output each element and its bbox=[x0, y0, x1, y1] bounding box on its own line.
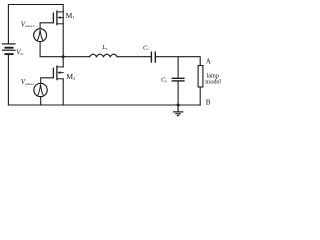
battery Vdc bbox=[3, 44, 16, 54]
wire Vpulse1 return to midpoint bbox=[40, 42, 63, 57]
wire Cs to lamp bbox=[156, 57, 200, 66]
transistor M1 bbox=[53, 11, 63, 25]
wire M2 source lead bbox=[62, 79, 64, 105]
svg-text:Cp: Cp bbox=[161, 76, 167, 83]
transistor M2 bbox=[53, 66, 63, 80]
svg-text:Le: Le bbox=[101, 44, 108, 51]
wire midpoint to inductor bbox=[63, 56, 89, 58]
inductor Le bbox=[90, 54, 118, 57]
node midpoint junction bbox=[62, 55, 65, 58]
capacitor Cp bbox=[172, 78, 184, 81]
svg-text:Cs: Cs bbox=[143, 44, 149, 51]
wire M1 gate lead bbox=[40, 23, 53, 29]
wire left rail down bbox=[7, 55, 9, 105]
wire Cp to ground rail bbox=[177, 82, 179, 106]
wire Vpulse2 return to ground rail bbox=[40, 97, 42, 105]
wire M2 drain lead bbox=[62, 57, 64, 67]
svg-text:M1: M1 bbox=[66, 11, 75, 20]
svg-text:Vdc: Vdc bbox=[16, 48, 24, 56]
wire M1 drain-source lead bbox=[62, 12, 64, 57]
svg-text:Vpulse2: Vpulse2 bbox=[21, 78, 34, 86]
ground bbox=[174, 105, 183, 116]
wire M2 gate lead bbox=[41, 78, 54, 84]
svg-text:model: model bbox=[205, 78, 221, 85]
svg-text:M2: M2 bbox=[66, 72, 75, 81]
svg-text:A: A bbox=[206, 58, 212, 66]
wire bottom rail bbox=[8, 104, 200, 106]
lamp model box bbox=[198, 66, 203, 88]
node ground junction bbox=[177, 104, 180, 107]
wire lamp to bottom rail bbox=[199, 87, 201, 105]
capacitor Cs bbox=[151, 52, 155, 62]
wire top rail bbox=[8, 5, 63, 45]
svg-text:B: B bbox=[206, 98, 211, 106]
wire inductor to Cs bbox=[117, 56, 151, 58]
svg-text:Vpulse1: Vpulse1 bbox=[21, 21, 34, 29]
capacitor Cp branch wire bbox=[177, 57, 179, 78]
pulse source Vpulse1 bbox=[34, 29, 47, 42]
pulse source Vpulse2 bbox=[34, 83, 47, 96]
